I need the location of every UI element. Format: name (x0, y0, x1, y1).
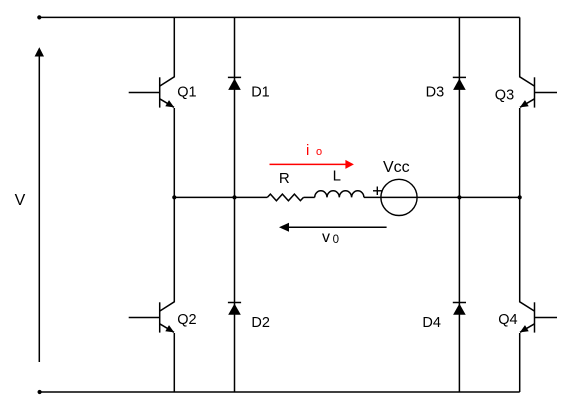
svg-text:V: V (15, 192, 26, 209)
svg-text:L: L (333, 168, 341, 185)
junction node B (right bridge output) (518, 195, 522, 199)
output voltage arrow v0 (279, 223, 387, 232)
current arrow i0 (270, 160, 354, 169)
diode D2 (228, 197, 241, 392)
wire bottom rail (40, 391, 520, 393)
diode D3 (453, 17, 466, 197)
svg-text:D2: D2 (251, 315, 270, 331)
plus polarity mark (373, 187, 382, 196)
diode D4 (453, 197, 466, 392)
wire middle rail right segment (364, 196, 520, 198)
diode D1 (228, 17, 241, 197)
voltage arrow V (35, 47, 44, 362)
svg-text:0: 0 (333, 234, 339, 246)
resistor R (267, 194, 303, 201)
wire between R and L (304, 196, 315, 198)
transistor Q2 (129, 197, 175, 392)
junction node A (left bridge output) (172, 195, 176, 199)
svg-text:D1: D1 (251, 85, 270, 101)
label v0 (322, 229, 339, 246)
svg-text:o: o (316, 146, 322, 158)
transistor Q3 (520, 17, 557, 197)
svg-text:Vcc: Vcc (383, 159, 410, 176)
svg-text:Q3: Q3 (495, 87, 514, 103)
wire middle rail left segment (174, 196, 267, 198)
svg-text:Q1: Q1 (177, 84, 196, 100)
svg-text:v: v (322, 229, 330, 246)
svg-text:i: i (306, 142, 309, 159)
junction dot D1-D2 column on middle rail (232, 195, 236, 199)
junction dot bottom-left (38, 390, 42, 394)
label i0 (306, 142, 322, 159)
svg-text:Q4: Q4 (498, 312, 517, 328)
svg-text:D4: D4 (422, 315, 441, 331)
svg-text:Q2: Q2 (177, 312, 196, 328)
junction dot top-left (37, 15, 41, 19)
transistor Q1 (129, 17, 175, 197)
junction dot D3-D4 column on middle rail (457, 195, 461, 199)
svg-text:D3: D3 (426, 84, 445, 100)
inductor L (315, 191, 364, 198)
transistor Q4 (520, 197, 557, 392)
voltage source Vcc (381, 179, 417, 215)
svg-text:R: R (279, 170, 290, 187)
wire top rail (39, 16, 519, 18)
